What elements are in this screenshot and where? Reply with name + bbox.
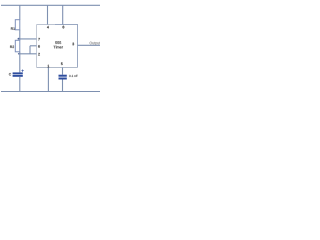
pin 5 number: [61, 63, 63, 66]
wire pin 4 to VCC: [47, 5, 49, 24]
wire pin 5 down to C2: [62, 68, 64, 75]
pin 8 number: [63, 26, 65, 29]
capacitor C top plate: [13, 72, 23, 74]
capacitor C label: [9, 73, 11, 75]
node B junction dot (R2/C/pin2): [18, 53, 20, 55]
wire R1 to node A: [19, 30, 21, 41]
resistor R1: [15, 20, 19, 30]
wire C to ground rail: [19, 77, 21, 92]
pin 7 number: [38, 38, 40, 40]
node A junction dot (R1/R2/pin7): [18, 38, 20, 40]
capacitor C plus sign: [21, 70, 23, 72]
capacitor C2 value 0.1 nF: [69, 75, 78, 77]
wire pin 1 to ground: [47, 68, 49, 92]
capacitor C bottom plate: [13, 75, 23, 77]
capacitor C2 bottom plate: [59, 78, 67, 80]
wire to pin 6: [30, 45, 37, 47]
pin 4 number: [47, 26, 49, 28]
wire node A to pin 7: [20, 38, 37, 40]
capacitor C2 top plate: [59, 75, 67, 77]
IC U1 555 timer body: [37, 25, 79, 68]
wire ground bottom rail: [1, 91, 100, 93]
output label: [90, 42, 101, 45]
pin 1 number: [48, 65, 50, 67]
wire C2 to ground rail: [62, 80, 64, 92]
resistor R2 label: [10, 46, 14, 48]
background: [0, 0, 100, 100]
pin 3 number: [72, 43, 74, 46]
pin 2 number: [38, 53, 40, 56]
pin 6 number: [38, 45, 40, 48]
resistor R1 label: [11, 27, 15, 29]
wire branch up to pin 6: [29, 46, 31, 54]
wire node B to pin 2: [20, 53, 37, 55]
wire left column top (VCC to R1): [19, 5, 21, 20]
wire VCC top rail: [1, 4, 100, 6]
wire pin 3 output: [78, 44, 101, 46]
resistor R2: [15, 40, 19, 52]
wire R2 to node B: [19, 52, 21, 73]
wire pin 8 to VCC: [62, 5, 64, 24]
IC U1 label 555 Timer: [55, 41, 61, 44]
